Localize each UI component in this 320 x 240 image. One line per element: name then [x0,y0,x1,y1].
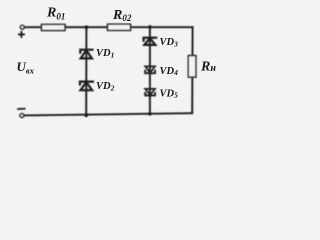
diode VD5 [145,89,155,96]
zener diode VD3 [144,38,157,45]
diode VD4 [145,66,155,73]
wire right side [191,27,193,113]
wire top rail [24,26,192,28]
resistor R02 [108,24,131,30]
plus sign [19,32,24,37]
svg-text:VD4: VD4 [160,66,179,77]
node junction top-left [85,25,89,29]
svg-text:VD2: VD2 [96,81,115,92]
node junction bottom-left [84,113,88,117]
terminal minus (input -) [20,114,24,118]
zener diode VD2 [80,82,93,91]
wire branch VD3-VD5 [149,27,151,114]
minus sign [18,108,25,110]
node junction bottom-right [148,112,152,116]
node junction top-right [148,25,152,29]
resistor R01 [42,24,66,30]
wire branch VD1-VD2 [85,27,87,115]
resistor Rn (load) [188,56,196,78]
wire bottom rail [24,113,192,115]
terminal plus (input +) [20,25,24,29]
zener diode VD1 [80,50,92,59]
svg-text:VD3: VD3 [160,37,179,48]
svg-text:VD1: VD1 [96,48,114,59]
svg-text:VD5: VD5 [160,88,179,99]
